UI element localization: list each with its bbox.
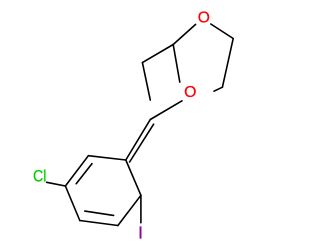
svg-text:O: O — [184, 84, 196, 101]
bond O3-V1 — [150, 101, 182, 120]
bond C2-Va — [142, 45, 173, 63]
benzene C-D inner double — [85, 211, 114, 215]
benzene edge F-A — [88, 156, 125, 160]
bond C5-C4 — [222, 39, 233, 88]
bond B-I — [140, 195, 142, 222]
svg-text:Cl: Cl — [33, 167, 46, 185]
svg-text:O: O — [198, 10, 210, 27]
svg-text:I: I — [138, 222, 143, 242]
bond O1-C5 — [211, 24, 233, 39]
bond E-Cl — [47, 182, 66, 186]
benzene E-F inner double — [76, 164, 92, 184]
benzene edge C-D — [80, 221, 118, 226]
benzene edge D-E — [65, 186, 79, 221]
double bond V1=A second line — [130, 124, 154, 162]
bond O1-C2 — [173, 24, 195, 44]
bond Va-Vb — [142, 63, 150, 101]
benzene edge B-C — [118, 195, 141, 225]
bond C4-O3 — [214, 87, 222, 91]
benzene edge A-B — [126, 160, 141, 195]
bond C2-O3 — [173, 45, 180, 83]
double bond V1=A main line — [126, 120, 151, 161]
benzene edge E-F — [65, 156, 88, 186]
